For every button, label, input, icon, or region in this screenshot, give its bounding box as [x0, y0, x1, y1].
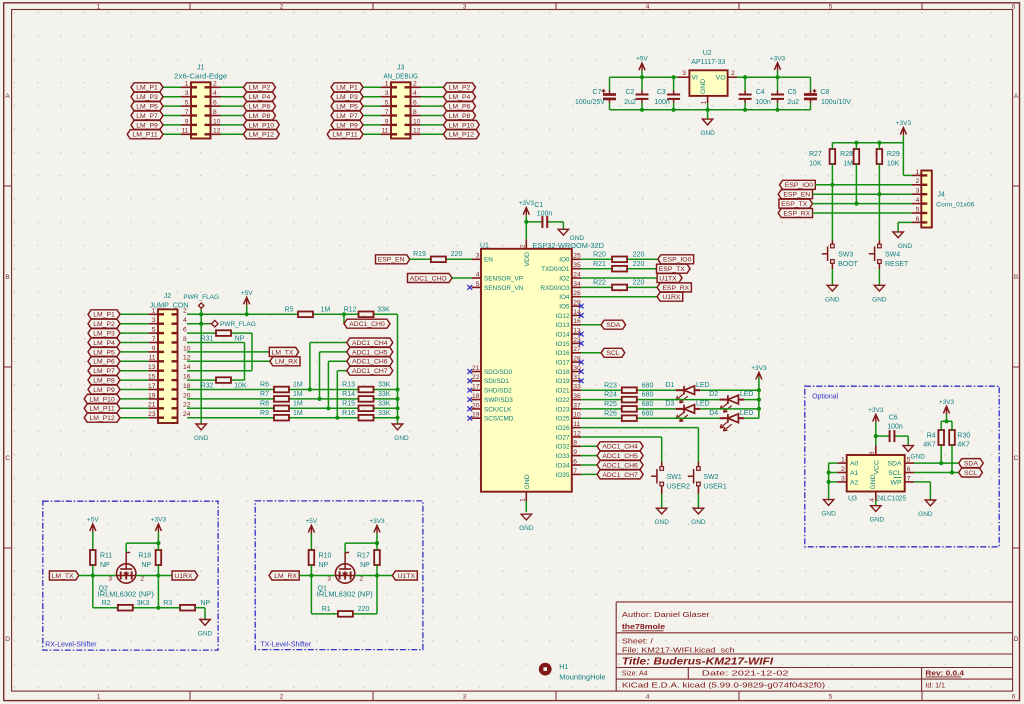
svg-text:H1: H1 [559, 664, 568, 671]
svg-text:Conn_01x06: Conn_01x06 [936, 201, 975, 208]
svg-text:8: 8 [869, 451, 876, 455]
svg-text:1: 1 [700, 100, 707, 104]
wire IO34 [581, 464, 597, 466]
svg-text:R5: R5 [285, 306, 294, 313]
svg-text:11: 11 [149, 355, 156, 362]
wire J2 pin 19 [120, 392, 158, 399]
svg-text:ADC1_CH5: ADC1_CH5 [602, 453, 638, 460]
svg-text:2: 2 [280, 4, 284, 11]
note box RX-Level-Shifter [43, 501, 218, 650]
svg-text:4: 4 [413, 90, 417, 97]
svg-text:SCL: SCL [964, 470, 977, 477]
wire GND vertical [200, 314, 202, 424]
svg-text:100u/10V: 100u/10V [821, 99, 851, 106]
global label LM_P12 [84, 413, 120, 422]
svg-text:LM_TX: LM_TX [272, 349, 294, 356]
wire R28 top [855, 143, 857, 149]
wire J2 pin24 [187, 417, 398, 419]
svg-text:6: 6 [1012, 4, 1016, 11]
wire SDA [914, 462, 959, 464]
power +3V3 [939, 399, 955, 421]
wire J4 pin6 [898, 222, 912, 232]
module U1 ESP32-WROOM-32D [480, 241, 604, 492]
svg-text:U1: U1 [480, 242, 489, 249]
svg-text:IO0: IO0 [559, 257, 570, 264]
wire [525, 222, 527, 240]
svg-text:6: 6 [907, 466, 911, 473]
svg-text:NP: NP [200, 600, 210, 607]
svg-text:ADC1_CH6: ADC1_CH6 [602, 462, 638, 469]
svg-text:LM_P10: LM_P10 [249, 122, 275, 129]
svg-text:A2: A2 [850, 479, 859, 486]
svg-text:1M: 1M [293, 400, 303, 407]
wire [875, 436, 877, 446]
svg-text:4K7: 4K7 [923, 441, 936, 448]
wire J2 pin20 [187, 398, 398, 400]
svg-text:5: 5 [152, 327, 156, 334]
pin 1 GND [519, 474, 531, 502]
pin 6 U3 [905, 466, 914, 473]
global label LM_P3 [88, 329, 120, 338]
global label LM_P11 [327, 130, 363, 139]
svg-text:220: 220 [633, 280, 645, 287]
mounting hole H1 [539, 663, 606, 682]
no-connect X [467, 407, 472, 412]
resistor R2 [102, 600, 150, 611]
svg-text:GND: GND [519, 525, 534, 532]
svg-text:SCL: SCL [888, 470, 901, 477]
global label ESP_EN [778, 190, 812, 199]
svg-text:+5V: +5V [87, 517, 99, 524]
junction [706, 108, 710, 112]
svg-text:ESP_IO0: ESP_IO0 [663, 257, 692, 264]
svg-text:6: 6 [213, 100, 217, 107]
svg-text:12: 12 [213, 128, 221, 135]
svg-text:10: 10 [413, 118, 421, 125]
pin 23 IO15 [556, 337, 582, 348]
svg-text:R9: R9 [260, 410, 269, 417]
wire R28 bottom [855, 164, 857, 204]
svg-text:ADC1_CHO: ADC1_CHO [410, 275, 447, 282]
svg-text:C2: C2 [625, 89, 634, 96]
svg-text:R11: R11 [100, 552, 112, 559]
svg-text:LM_P1: LM_P1 [336, 85, 358, 92]
svg-text:GND: GND [700, 79, 707, 94]
junction [245, 312, 249, 316]
wire R29 top [878, 143, 880, 149]
svg-text:U3: U3 [848, 496, 857, 503]
wire ESP_RX [813, 212, 912, 214]
global label SDA [601, 320, 626, 329]
no-connect X [579, 313, 584, 318]
svg-text:SCK/CLK: SCK/CLK [484, 406, 512, 413]
svg-text:GND: GND [691, 519, 706, 526]
wire EN [410, 258, 472, 260]
svg-text:ADC1_CH4: ADC1_CH4 [352, 340, 388, 347]
pin 18 SWP/SD3 [472, 393, 514, 404]
svg-text:C5: C5 [788, 89, 797, 96]
svg-text:10: 10 [573, 412, 581, 419]
junction [877, 192, 881, 196]
ground [821, 500, 836, 518]
svg-text:3: 3 [841, 475, 845, 482]
svg-text:MountingHole: MountingHole [559, 674, 605, 681]
svg-text:2: 2 [141, 575, 145, 582]
svg-text:10K: 10K [887, 160, 900, 167]
svg-text:Author: Daniel Glaser: Author: Daniel Glaser [622, 612, 710, 619]
resistor R1 [322, 606, 370, 617]
junction [672, 108, 676, 112]
global label ADC1_CH4 [597, 442, 643, 451]
svg-text:U1RX: U1RX [662, 294, 681, 301]
ground [903, 446, 925, 461]
power +3V3 [770, 55, 786, 77]
no-connect X [579, 360, 584, 365]
no-connect X [467, 397, 472, 402]
svg-text:4: 4 [646, 4, 650, 11]
svg-text:LM_P6: LM_P6 [249, 104, 271, 111]
svg-text:3: 3 [152, 317, 156, 324]
pin 1 J4 [912, 169, 921, 176]
global label ESP_RX [778, 209, 812, 218]
global label ESP_TX [657, 264, 691, 273]
power +3V3 [896, 120, 912, 143]
wire J3 pin 9 [363, 118, 391, 125]
resistor R13 [342, 382, 391, 393]
wire ADC1_CH5 [320, 352, 347, 399]
LED D3 [665, 401, 709, 422]
wire J2 pin 3 [120, 317, 158, 324]
global label LM_P8 [88, 376, 120, 385]
svg-text:SCS/CMD: SCS/CMD [484, 416, 514, 423]
svg-text:SDA: SDA [888, 461, 902, 468]
svg-text:1: 1 [97, 4, 101, 11]
svg-text:IO16: IO16 [556, 350, 570, 357]
wire J3 pin 10 [411, 118, 444, 125]
wire gate Q2 [126, 543, 158, 552]
svg-text:100n: 100n [654, 99, 670, 106]
wire [907, 436, 909, 446]
svg-text:4K7: 4K7 [957, 441, 970, 448]
svg-text:R32: R32 [201, 383, 214, 390]
junction [950, 470, 954, 474]
global label LM_P6 [88, 357, 120, 366]
svg-text:2: 2 [183, 308, 187, 315]
connector J2 [150, 293, 189, 423]
global label U1RX [657, 292, 683, 301]
svg-text:17: 17 [148, 383, 156, 390]
switch SW3 BOOT [822, 241, 859, 270]
svg-text:Sheet: /: Sheet: / [622, 639, 653, 646]
pin 21 SDO/SD0 [472, 365, 513, 376]
junction [757, 398, 761, 402]
pin 10 IO25 [556, 412, 582, 423]
svg-text:C3: C3 [657, 89, 666, 96]
svg-text:R10: R10 [319, 552, 332, 559]
junction [395, 397, 399, 401]
svg-text:GND: GND [872, 296, 887, 303]
svg-text:26: 26 [573, 290, 581, 297]
svg-text:13: 13 [148, 364, 156, 371]
resistor R21 [593, 261, 644, 272]
wire [376, 565, 378, 576]
pin 2 VDD [519, 239, 531, 266]
junction [326, 406, 330, 410]
svg-text:LM_P3: LM_P3 [336, 94, 358, 101]
pin 4 J4 [912, 197, 921, 204]
power +3V3 [751, 365, 767, 380]
junction [309, 573, 313, 577]
global label LM_P2 [244, 83, 276, 92]
svg-text:GND: GND [898, 243, 913, 250]
wire IO0 [581, 258, 658, 260]
resistor R28 [840, 149, 859, 167]
svg-text:C7: C7 [593, 89, 602, 96]
svg-text:ADC1_CH0: ADC1_CH0 [349, 321, 385, 328]
power +5V [87, 517, 99, 551]
wire J2 pin14 [187, 370, 252, 372]
ground [700, 110, 715, 137]
svg-text:R20: R20 [593, 251, 606, 258]
svg-text:2u2: 2u2 [787, 99, 799, 106]
svg-text:SENSOR_VN: SENSOR_VN [484, 285, 524, 292]
svg-text:16: 16 [573, 318, 581, 325]
global label U1TX [657, 274, 682, 283]
global label U1TX [392, 571, 417, 580]
wire R2 path [93, 576, 159, 608]
wire SCL [914, 472, 959, 474]
wire IO25 [581, 417, 759, 419]
pin 1 U3 [837, 457, 846, 464]
transistor Q1 IRLML6302 [317, 553, 373, 599]
global label LM_RX [269, 571, 299, 580]
wire IO4 [581, 296, 657, 298]
svg-text:5: 5 [829, 694, 833, 701]
wire J3 pin 4 [411, 90, 444, 97]
wire ADC1_CH0 tap [343, 314, 345, 323]
svg-text:680: 680 [642, 382, 654, 389]
resistor R7 [260, 391, 303, 402]
svg-text:680: 680 [642, 392, 654, 399]
svg-text:10: 10 [213, 118, 221, 125]
svg-text:27: 27 [573, 346, 581, 353]
global label ADC1_CHO [408, 274, 453, 283]
svg-text:3: 3 [327, 575, 331, 582]
svg-text:GND: GND [870, 474, 877, 489]
svg-text:GND: GND [825, 296, 840, 303]
svg-text:R23: R23 [604, 382, 617, 389]
resistor R11 [90, 550, 112, 569]
pin 4 GND [869, 492, 876, 502]
svg-text:R16: R16 [342, 410, 355, 417]
svg-text:C: C [5, 455, 10, 462]
svg-text:6: 6 [916, 216, 920, 223]
svg-text:RXD0/IO3: RXD0/IO3 [540, 285, 570, 292]
wire ESP_IO0 [815, 184, 912, 186]
svg-text:22: 22 [472, 374, 480, 381]
svg-text:R31: R31 [201, 336, 214, 343]
svg-text:D2: D2 [709, 391, 718, 398]
resistor R25 [604, 401, 653, 412]
svg-text:PWR_FLAG: PWR_FLAG [183, 294, 219, 301]
wire SW4 [878, 194, 880, 240]
svg-text:LM_P8: LM_P8 [93, 378, 115, 385]
junction [308, 387, 312, 391]
resistor R12 [344, 306, 390, 317]
svg-text:LM_P7: LM_P7 [336, 113, 358, 120]
svg-text:4: 4 [869, 498, 876, 502]
pin 36 IO22 [556, 393, 582, 404]
svg-text:Rev: 0.0.4: Rev: 0.0.4 [925, 670, 964, 677]
svg-text:J1: J1 [197, 64, 205, 71]
svg-text:R24: R24 [604, 392, 617, 399]
pin 3 J4 [912, 188, 921, 195]
global label LM_P5 [331, 102, 363, 111]
svg-text:SDO/SD0: SDO/SD0 [484, 369, 513, 376]
global label ADC1_CH7 [597, 470, 643, 479]
wire gate Q1 [345, 543, 377, 552]
svg-text:1M: 1M [293, 382, 303, 389]
junction [395, 416, 399, 420]
resistor R16 [342, 410, 391, 421]
pin 3 VI [678, 70, 690, 77]
global label LM_P10 [244, 120, 280, 129]
svg-text:ADC1_CH5: ADC1_CH5 [352, 349, 388, 356]
svg-text:IO23: IO23 [556, 406, 570, 413]
wire A pins [829, 463, 838, 500]
svg-text:USER2: USER2 [667, 484, 690, 491]
svg-text:7: 7 [385, 109, 389, 116]
global label LM_P6 [244, 102, 276, 111]
svg-text:5: 5 [385, 100, 389, 107]
svg-text:LM_P12: LM_P12 [249, 132, 275, 139]
global label LM_P5 [131, 102, 163, 111]
global label LM_P3 [331, 92, 363, 101]
svg-text:4: 4 [183, 317, 187, 324]
svg-text:R21: R21 [593, 261, 606, 268]
svg-text:R18: R18 [138, 552, 151, 559]
svg-text:2: 2 [841, 466, 845, 473]
svg-text:SCL: SCL [606, 350, 619, 357]
wire J2 pin12 [187, 360, 270, 362]
svg-text:2: 2 [519, 244, 526, 248]
wire [376, 543, 378, 550]
switch SW1 USER2 [651, 462, 690, 494]
pin 25 IO0 [559, 253, 581, 264]
wire IO1 [581, 268, 656, 270]
svg-text:23: 23 [148, 411, 156, 418]
svg-text:LM_P9: LM_P9 [136, 122, 158, 129]
svg-text:LED: LED [696, 382, 710, 389]
global label LM_P2 [88, 319, 120, 328]
no-connect X [467, 388, 472, 393]
svg-text:8: 8 [213, 109, 217, 116]
svg-text:LM_RX: LM_RX [274, 573, 297, 580]
global label LM_P2 [444, 83, 476, 92]
wire R29 bottom [878, 164, 880, 194]
capacitor C5 [771, 77, 799, 110]
wire IO22 [581, 399, 759, 401]
svg-text:SW2: SW2 [703, 474, 718, 481]
svg-text:SDA: SDA [606, 322, 620, 329]
svg-text:R17: R17 [357, 552, 370, 559]
svg-text:LED: LED [740, 410, 754, 417]
svg-text:GND: GND [524, 474, 531, 489]
wire [136, 575, 172, 577]
svg-text:33K: 33K [378, 400, 391, 407]
global label LM_P7 [131, 111, 163, 120]
svg-text:+3V3: +3V3 [868, 407, 884, 414]
svg-text:R30: R30 [957, 432, 970, 439]
svg-text:SHD/SD2: SHD/SD2 [484, 388, 512, 395]
pin 6 IO34 [556, 458, 582, 469]
resistor R19 [413, 251, 462, 262]
wire J1 pin 11 [163, 128, 191, 135]
resistor R14 [342, 391, 391, 402]
svg-text:R27: R27 [809, 151, 822, 158]
svg-text:12: 12 [413, 128, 421, 135]
power +5V [241, 290, 253, 315]
svg-text:1M: 1M [293, 410, 303, 417]
wire [157, 565, 159, 576]
svg-text:RESET: RESET [885, 261, 909, 268]
svg-text:IRLML6302 (NP): IRLML6302 (NP) [317, 592, 373, 599]
svg-text:GND: GND [700, 130, 715, 137]
wire J1 pin 5 [163, 100, 191, 107]
global label LM_P1 [331, 83, 363, 92]
global label LM_P8 [444, 111, 476, 120]
svg-text:U1TX: U1TX [659, 275, 677, 282]
wire pullup tops [941, 421, 952, 430]
pin 37 IO23 [556, 402, 582, 413]
power +3V3 [868, 407, 884, 436]
wire IO13 [581, 324, 601, 326]
wire J2 pin8 [187, 343, 245, 381]
svg-text:680: 680 [642, 401, 654, 408]
svg-text:220: 220 [633, 251, 645, 258]
svg-text:R12: R12 [344, 306, 357, 313]
svg-text:LM_P2: LM_P2 [449, 85, 471, 92]
global label LM_P8 [244, 111, 276, 120]
power +5V [306, 518, 318, 550]
pin 16 IO13 [556, 318, 582, 329]
svg-text:GND: GND [194, 435, 209, 442]
svg-text:9: 9 [152, 345, 156, 352]
transistor Q2 IRLML6302 [98, 553, 154, 599]
global label ADC1_CH6 [597, 461, 643, 470]
capacitor C4 [739, 77, 771, 110]
svg-text:IO4: IO4 [559, 294, 570, 301]
no-connect X [579, 332, 584, 337]
junction [375, 541, 379, 545]
svg-text:+3V3: +3V3 [751, 365, 767, 372]
svg-text:33: 33 [573, 384, 581, 391]
pin 33 IO21 [556, 384, 582, 395]
wire IO21 [581, 389, 759, 391]
svg-text:NP: NP [319, 562, 329, 569]
svg-text:GND: GND [910, 454, 925, 461]
wire J2 pin2 rail [187, 314, 398, 424]
wire IO27 [581, 437, 662, 462]
junction [317, 397, 321, 401]
junction [757, 407, 761, 411]
wire J1 pin 3 [163, 90, 191, 97]
note box TX-Level-Shifter [255, 501, 423, 650]
resistor R6 [260, 382, 303, 393]
global label LM_P1 [131, 83, 163, 92]
svg-text:10K: 10K [234, 383, 247, 390]
junction [335, 416, 339, 420]
